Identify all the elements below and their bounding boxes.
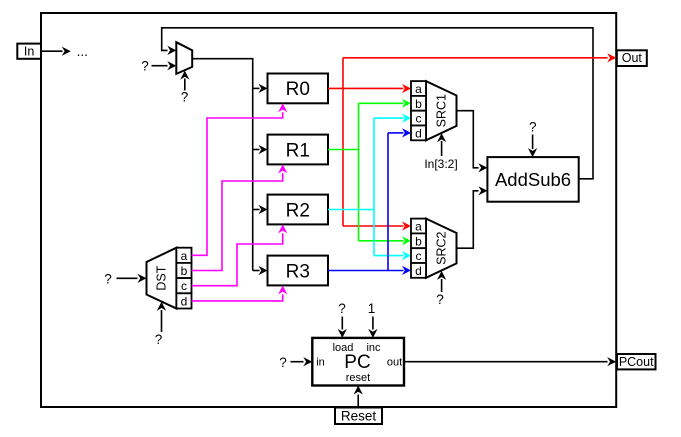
- svg-text:...: ...: [77, 44, 88, 59]
- mux SRC2 input pin a: [411, 219, 426, 234]
- mux SRC1 body: [426, 81, 457, 140]
- svg-text:a: a: [181, 249, 188, 263]
- decoder DST output pin b: [176, 263, 191, 278]
- input port Reset: [335, 408, 382, 425]
- wire In to ellipsis: [41, 47, 71, 56]
- wire cyan to SRC1 c: [374, 114, 411, 123]
- svg-text:SRC2: SRC2: [435, 231, 449, 264]
- svg-text:?: ?: [181, 90, 189, 105]
- svg-text:d: d: [415, 126, 422, 140]
- wire green to SRC2 b: [359, 236, 412, 245]
- wire SRC2 output to AddSub6: [457, 186, 488, 248]
- PC load ? label: [338, 301, 346, 316]
- svg-text:?: ?: [436, 292, 444, 307]
- svg-text:?: ?: [155, 332, 163, 347]
- wire select ? to mux U1: [180, 71, 189, 91]
- svg-text:?: ?: [141, 58, 149, 73]
- wire R2 output (cyan): [328, 209, 374, 211]
- svg-text:reset: reset: [346, 372, 370, 384]
- SRC2 select ? label: [436, 292, 444, 307]
- wire ? to PC load: [338, 317, 347, 338]
- svg-text:a: a: [415, 82, 422, 96]
- svg-text:b: b: [181, 264, 188, 278]
- svg-text:R1: R1: [286, 140, 310, 161]
- wire red to SRC2 a: [343, 221, 411, 230]
- register R1: [268, 135, 329, 165]
- wire green branch vertical: [358, 103, 360, 241]
- svg-text:load: load: [333, 342, 354, 354]
- svg-text:d: d: [181, 294, 188, 308]
- wire blue to SRC1 d: [388, 128, 411, 137]
- wire R1 output (green): [328, 149, 359, 151]
- svg-text:?: ?: [529, 120, 537, 135]
- svg-text:in: in: [316, 357, 325, 369]
- svg-text:Reset: Reset: [341, 409, 377, 424]
- PC in ? label: [279, 355, 287, 370]
- wire ? to DST: [117, 274, 147, 283]
- svg-text:out: out: [387, 357, 402, 369]
- wire cyan branch vertical: [373, 118, 375, 256]
- output port Out: [617, 50, 647, 66]
- svg-text:DST: DST: [155, 265, 169, 290]
- wire DST d to R3 write-enable (magenta): [192, 285, 288, 301]
- mux SRC1 input pin b: [411, 96, 426, 111]
- wire into R3 input: [253, 266, 268, 275]
- wire In[3:2] to SRC1 select: [437, 133, 446, 156]
- wire red to Out: [343, 53, 616, 62]
- wire R0 output to SRC1 a (red): [328, 84, 411, 93]
- DST enable ? label (bottom): [155, 332, 163, 347]
- constant 1 label: [368, 301, 376, 316]
- input port In: [17, 44, 41, 59]
- wire 1 to PC inc: [368, 317, 377, 338]
- program counter PC: [312, 338, 404, 386]
- wire DST a to R0 write-enable (magenta): [192, 103, 288, 255]
- wire into R2 input: [253, 205, 268, 214]
- svg-text:?: ?: [104, 272, 112, 287]
- decoder DST output pin d: [176, 293, 191, 308]
- mux SRC2 input pin d: [411, 263, 426, 278]
- wire SRC1 output to AddSub6: [457, 111, 488, 173]
- wire ? to mux U1: [152, 61, 177, 70]
- mux SRC1 input pin a: [411, 81, 426, 96]
- svg-text:c: c: [416, 249, 422, 263]
- input-select mux U1: [176, 42, 192, 74]
- svg-text:c: c: [181, 279, 187, 293]
- wire DST b to R1 write-enable (magenta): [192, 164, 288, 270]
- wire ? to AddSub6 mode: [528, 135, 537, 158]
- svg-text:1: 1: [368, 301, 376, 316]
- wire red branch vertical: [342, 58, 344, 226]
- output port PCout: [617, 354, 656, 369]
- wire ? to PC in: [291, 357, 313, 366]
- svg-text:c: c: [416, 112, 422, 126]
- svg-text:R3: R3: [286, 261, 310, 282]
- wire ? to SRC2 select: [437, 271, 446, 292]
- svg-text:PCout: PCout: [619, 355, 654, 369]
- wire enable ? to DST: [157, 302, 166, 332]
- mux SRC2 body: [426, 219, 457, 278]
- wire PC out to PCout: [404, 357, 616, 366]
- decoder DST body: [147, 248, 177, 309]
- wire into R1 input: [253, 145, 268, 154]
- svg-text:PC: PC: [344, 352, 370, 373]
- wire cyan to SRC2 c: [374, 251, 411, 260]
- mux U1 select ? label: [181, 90, 189, 105]
- svg-text:SRC1: SRC1: [435, 94, 449, 127]
- ellipsis (unconnected In bus): [77, 44, 88, 59]
- mux SRC1 input pin d: [411, 126, 426, 141]
- mux U1 input ? label: [141, 58, 149, 73]
- svg-text:In: In: [24, 45, 34, 59]
- wire into R0 input: [253, 84, 268, 93]
- mux SRC2 input pin c: [411, 248, 426, 263]
- register R0: [268, 74, 329, 104]
- wire green to SRC1 b: [359, 99, 412, 108]
- ALU AddSub6: [487, 157, 578, 202]
- wire AddSub6 feedback to mux U1: [162, 28, 593, 179]
- svg-text:R0: R0: [286, 79, 310, 100]
- outer circuit border: [41, 13, 616, 407]
- wire DST c to R2 write-enable (magenta): [192, 224, 288, 285]
- svg-text:R2: R2: [286, 200, 310, 221]
- decoder DST output pin c: [176, 278, 191, 293]
- wire Reset to PC reset: [354, 386, 363, 408]
- mux SRC2 input pin b: [411, 233, 426, 248]
- svg-text:Out: Out: [622, 51, 643, 65]
- AddSub6 mode ? label: [529, 120, 537, 135]
- register R2: [268, 195, 329, 225]
- svg-text:AddSub6: AddSub6: [495, 169, 571, 190]
- register R3: [268, 256, 329, 286]
- svg-text:d: d: [415, 264, 422, 278]
- wire mux U1 output to register inputs: [192, 59, 253, 271]
- svg-text:?: ?: [279, 355, 287, 370]
- decoder DST output pin a: [176, 248, 191, 263]
- svg-text:In[3:2]: In[3:2]: [424, 157, 457, 171]
- svg-text:?: ?: [338, 301, 346, 316]
- svg-text:b: b: [415, 234, 422, 248]
- mux SRC1 input pin c: [411, 111, 426, 126]
- svg-text:b: b: [415, 97, 422, 111]
- SRC1 select label In[3:2]: [424, 157, 457, 171]
- DST select ? label (left): [104, 272, 112, 287]
- svg-text:a: a: [415, 220, 422, 234]
- wire blue branch vertical: [387, 133, 389, 271]
- wire R3 output to SRC2 d (blue): [328, 266, 411, 275]
- svg-text:inc: inc: [366, 342, 381, 354]
